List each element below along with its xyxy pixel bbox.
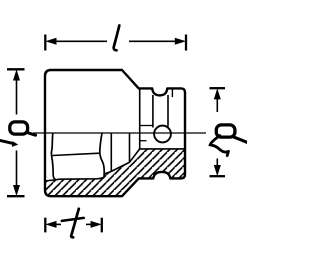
dimension t left arrowhead bbox=[45, 221, 56, 228]
dimension l extension tick left bbox=[44, 35, 46, 51]
groove right edge bbox=[167, 95, 169, 127]
label d2 stem of d bbox=[233, 137, 248, 143]
dimension d2 down arrowhead bbox=[214, 165, 221, 176]
label t crossbar bbox=[62, 218, 84, 221]
dimension t extension tick right bbox=[101, 218, 103, 233]
dimension d1 extension tick bottom bbox=[7, 195, 25, 197]
dimension l extension tick right bbox=[185, 35, 187, 51]
label l bbox=[114, 26, 120, 51]
hex cavity bottom wall line bbox=[45, 177, 104, 181]
dimension l left arrowhead bbox=[45, 38, 56, 45]
label d2 subscript 2 curve bbox=[210, 136, 228, 152]
end chamfer edge bbox=[171, 88, 173, 97]
dimension d2 extension tick bottom bbox=[210, 175, 226, 177]
dimension l right arrowhead bbox=[175, 38, 186, 45]
label d1 stem of d bbox=[27, 132, 36, 135]
square drive hole floor bbox=[140, 148, 185, 150]
socket body outline with drive-end groove bbox=[45, 70, 185, 196]
label d1 subscript 1 serif bbox=[12, 141, 18, 147]
hex cavity entry chamfer (wavy line) bbox=[51, 133, 55, 179]
label d1 bowl of d bbox=[10, 122, 28, 134]
centerline segment through pin hole bbox=[153, 132, 171, 134]
inner cavity edge C bbox=[129, 133, 131, 162]
dimension l line left segment bbox=[54, 40, 107, 42]
dimension t extension tick left bbox=[44, 218, 46, 233]
dimension t line left segment bbox=[54, 223, 61, 225]
hex flat edge bbox=[53, 153, 100, 155]
dimension d1 down arrowhead bbox=[13, 185, 20, 196]
dimension d1 line lower segment bbox=[16, 151, 18, 188]
dimension d2 extension tick top bbox=[210, 87, 226, 89]
groove left edge bbox=[152, 95, 154, 128]
label d2 bowl of d bbox=[216, 125, 235, 137]
centerline of socket axis bbox=[33, 132, 206, 134]
pin hole circle bbox=[154, 126, 171, 143]
dimension d1 up arrowhead bbox=[13, 69, 20, 80]
label d1 subscript 1 stroke bbox=[1, 141, 14, 144]
body/drive-shank boundary edge bbox=[139, 88, 141, 148]
dimension t line right segment bbox=[86, 223, 93, 225]
dimension d2 line upper segment bbox=[216, 97, 218, 112]
dimension l line right segment bbox=[129, 40, 177, 42]
dimension d2 up arrowhead bbox=[214, 88, 221, 99]
internal transition boundary bbox=[104, 149, 140, 174]
dimension d1 line upper segment bbox=[16, 78, 18, 115]
label d2 subscript 2 tail bbox=[227, 151, 228, 155]
section hatching of cut material bbox=[45, 149, 185, 196]
dimension d1 extension tick top bbox=[7, 68, 25, 70]
label t main stroke bbox=[71, 209, 79, 238]
dimension t right arrowhead bbox=[91, 221, 102, 228]
dimension d2 line lower segment bbox=[216, 159, 218, 167]
hex cavity end wall bbox=[100, 133, 104, 177]
inner cavity edge B bbox=[110, 133, 112, 171]
square hole lower edge line bbox=[140, 140, 147, 142]
square hole upper edge line bbox=[140, 125, 153, 127]
